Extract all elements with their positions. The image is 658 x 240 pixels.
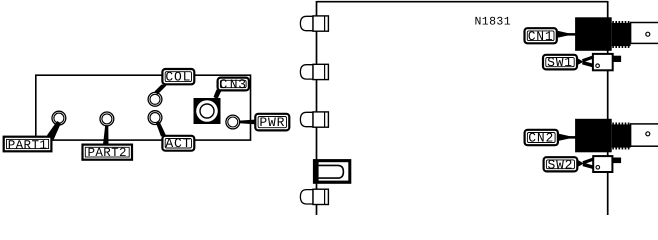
svg-text:CN2: CN2: [528, 131, 554, 146]
LED lamp 4 (bottom): [300, 189, 328, 204]
svg-text:PART2: PART2: [87, 146, 127, 160]
svg-text:CN3: CN3: [219, 77, 246, 92]
label PWR: [255, 114, 289, 131]
svg-text:CN1: CN1: [528, 29, 554, 44]
LED PART1: [52, 111, 66, 125]
connector CN1 (phone jack): [575, 17, 658, 51]
label SW2: [544, 157, 578, 172]
svg-text:N1831: N1831: [475, 16, 512, 29]
label PART1: [4, 137, 52, 153]
label PART2: [83, 145, 133, 161]
connector CN2 (phone jack): [575, 119, 658, 153]
label CN1: [525, 28, 557, 44]
bracket outline (left assembly): [36, 75, 251, 140]
connector CN3: [194, 98, 221, 124]
leader ACT: [156, 122, 166, 137]
label ACT: [162, 136, 194, 151]
board edge (right card): [317, 1, 608, 215]
svg-text:PART1: PART1: [8, 138, 48, 152]
switch SW1: [593, 54, 621, 70]
leader SW2: [578, 159, 593, 167]
svg-text:SW1: SW1: [547, 55, 573, 70]
board label N1831: [475, 16, 512, 29]
label CN2: [525, 130, 558, 146]
switch SW2: [593, 156, 621, 172]
leader PART2: [103, 126, 109, 145]
LED lamp 2: [300, 64, 328, 79]
leader PWR: [240, 120, 255, 125]
leader SW1: [578, 57, 593, 65]
leader CN2: [559, 134, 576, 141]
label CN3: [218, 77, 249, 92]
leader CN1: [558, 31, 576, 38]
svg-text:ACT: ACT: [165, 136, 191, 151]
LED ACT: [148, 111, 162, 125]
LED lamp 1 (top, side view): [300, 16, 328, 31]
LED lamp 3: [300, 112, 328, 127]
svg-text:SW2: SW2: [547, 157, 573, 172]
leader COL: [155, 85, 167, 95]
connector (left card, jack): [313, 159, 351, 184]
svg-text:COL: COL: [165, 70, 191, 85]
LED PART2: [100, 112, 114, 126]
label SW1: [543, 55, 577, 70]
LED PWR: [226, 115, 240, 129]
leader CN3: [214, 90, 222, 100]
label COL: [162, 69, 194, 85]
leader PART1: [47, 121, 61, 140]
svg-text:PWR: PWR: [259, 115, 285, 130]
LED COL: [148, 92, 162, 106]
